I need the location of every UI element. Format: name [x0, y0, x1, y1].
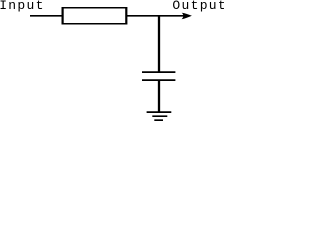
ground bar 3: [154, 119, 163, 121]
capacitor C1 top plate: [142, 71, 175, 73]
wire capacitor to ground: [158, 80, 160, 112]
resistor R1 (box style): [62, 7, 128, 25]
wire input to resistor: [30, 15, 63, 17]
svg-text:Output: Output: [172, 0, 224, 13]
capacitor C1 bottom plate: [142, 79, 175, 81]
output arrowhead: [182, 13, 192, 20]
svg-text:Input: Input: [0, 0, 45, 13]
ground bar 1: [147, 111, 172, 113]
wire resistor to output arrow: [126, 15, 184, 17]
ground bar 2: [152, 115, 167, 117]
wire junction down to capacitor: [158, 16, 160, 72]
